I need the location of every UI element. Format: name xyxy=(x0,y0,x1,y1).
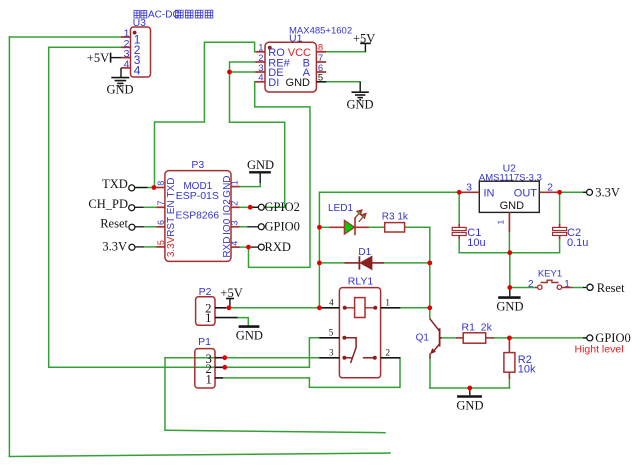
svg-text:5: 5 xyxy=(318,73,323,84)
op-amp U1 MAX485 xyxy=(255,26,352,93)
switch KEY1 xyxy=(528,268,572,289)
svg-text:LED1: LED1 xyxy=(328,203,353,214)
wire ESP Reset terminal xyxy=(143,226,157,228)
ground bar symbol at P3 pin1 xyxy=(247,158,274,183)
svg-text:GND: GND xyxy=(286,77,311,89)
wire U3 pin1 horizontal xyxy=(9,36,121,38)
svg-text:GPIO0: GPIO0 xyxy=(265,220,300,234)
wire GPIO0 node to terminal xyxy=(509,337,586,339)
junction dot RXD xyxy=(246,245,251,250)
svg-text:GND: GND xyxy=(500,200,525,212)
node GPIO0 R2 junction xyxy=(507,336,512,341)
svg-text:3: 3 xyxy=(329,348,334,358)
ground earth symbol at U3 pin4 xyxy=(107,68,134,97)
ground earth symbol at U1 pin5 xyxy=(347,82,374,112)
svg-text:TXD: TXD xyxy=(102,177,128,191)
wire R3 right corner xyxy=(405,226,430,228)
svg-text:R3 1k: R3 1k xyxy=(382,211,409,222)
U1 pin 6 A xyxy=(316,71,326,73)
svg-text:2: 2 xyxy=(528,279,534,290)
P2 pin 2 xyxy=(215,307,226,309)
U1 pin names xyxy=(268,47,311,89)
svg-text:KEY1: KEY1 xyxy=(538,268,562,279)
svg-text:+5V: +5V xyxy=(220,286,242,300)
wire ESP RXD row xyxy=(240,246,249,248)
U1 pin 8 VCC xyxy=(316,51,326,53)
svg-text:2: 2 xyxy=(547,182,553,194)
U2 pin 1 GND xyxy=(508,212,510,232)
node U2 OUT junction xyxy=(557,190,562,195)
svg-text:+5V: +5V xyxy=(353,31,375,45)
resistor R2 xyxy=(504,338,536,379)
wire bottom slanted run from U3 pin1 net xyxy=(9,453,390,457)
svg-text:5: 5 xyxy=(156,240,166,245)
connector P1 xyxy=(195,336,223,388)
connector U3 xyxy=(121,10,213,78)
wire Q1 collector stub xyxy=(429,308,431,319)
RLY1 pin 1 stub xyxy=(381,307,401,309)
U1 pin1 marker dot xyxy=(268,46,272,50)
wire D1 row right xyxy=(384,262,430,264)
svg-text:GPIO2: GPIO2 xyxy=(265,200,300,214)
svg-text:1: 1 xyxy=(205,372,211,386)
wire ESP TXD terminal xyxy=(135,187,157,189)
svg-text:IO2: IO2 xyxy=(222,199,233,216)
wire D1 R3 net vertical xyxy=(429,227,431,307)
svg-text:GND: GND xyxy=(247,158,274,172)
U3 pin 2 xyxy=(121,46,131,48)
node relay pin4 junction xyxy=(317,305,322,310)
P2 pin 1 xyxy=(215,317,238,319)
U1 pin numbers xyxy=(258,43,263,84)
svg-text:RLY1: RLY1 xyxy=(348,276,374,288)
svg-text:1: 1 xyxy=(385,298,390,308)
node LED rail top junction xyxy=(317,225,322,230)
P3 pin 5 3.3V xyxy=(157,246,165,248)
wire KEY1 left xyxy=(510,287,535,289)
wire P1 pin1 to relay pin2 xyxy=(309,358,400,388)
LED LED1 xyxy=(328,203,369,235)
svg-text:OUT: OUT xyxy=(514,188,538,200)
wire relay pin5 vertical xyxy=(309,338,319,368)
node GPIO2 terminal xyxy=(248,200,300,214)
RLY1 contact xyxy=(344,338,374,363)
wire U3 pin1 left vertical down xyxy=(8,37,10,457)
P3 rotated pin names xyxy=(166,175,233,257)
svg-text:4: 4 xyxy=(134,64,141,78)
wire U1 DE stub join xyxy=(230,71,256,73)
node P1 pin2 junction xyxy=(222,365,227,370)
P1 pin 3 xyxy=(215,357,223,359)
wire KEY1 right xyxy=(572,287,583,289)
wire Q1 emitter down xyxy=(429,358,431,388)
svg-text:3.3V: 3.3V xyxy=(102,240,127,254)
P1 pin 1 xyxy=(215,377,223,379)
wire C1 top xyxy=(458,192,460,224)
svg-text:CH_PD: CH_PD xyxy=(88,197,128,211)
wire LED row left xyxy=(319,226,329,228)
svg-text:GND: GND xyxy=(496,300,523,314)
svg-text:1: 1 xyxy=(564,279,570,290)
P3 pin 4 RXD xyxy=(231,246,240,248)
svg-text:Q1: Q1 xyxy=(416,333,430,344)
P3 pin 7 EN xyxy=(157,206,165,208)
svg-text:7: 7 xyxy=(156,200,166,205)
U1 pin 1 RO xyxy=(255,51,265,53)
ground bar symbol at P2 xyxy=(236,327,263,343)
node U1 DE junction xyxy=(227,70,232,75)
wire U1 DI to ESP RXD xyxy=(249,82,311,268)
wire gnd rail under U2 xyxy=(459,252,559,254)
U3 pin 4 xyxy=(121,67,131,69)
svg-text:3: 3 xyxy=(466,182,472,194)
node emitter gnd junction xyxy=(467,386,472,391)
wire U1 VCC to +5V xyxy=(326,51,365,53)
resistor R3 xyxy=(382,211,409,232)
wire D1 row left xyxy=(319,262,344,264)
power +5V at U3 pin3 xyxy=(87,51,121,65)
P3 pin 2 IO2 xyxy=(231,206,240,208)
wire ESP 3.3V terminal xyxy=(143,246,157,248)
svg-text:10u: 10u xyxy=(467,237,485,249)
node CH_PD terminal xyxy=(88,197,143,211)
RLY1 pin 5 stub xyxy=(319,337,339,339)
svg-text:4: 4 xyxy=(329,298,334,308)
svg-text:IO0: IO0 xyxy=(222,218,233,235)
svg-text:RXD: RXD xyxy=(222,237,233,258)
node Reset terminal xyxy=(100,217,143,231)
U1 pin 3 DE xyxy=(255,71,265,73)
wire LED to R3 xyxy=(369,226,385,228)
P3 pin 3 IO0 xyxy=(231,226,240,228)
wire C2 bottom xyxy=(559,239,561,253)
junction dot TXD xyxy=(152,185,157,190)
svg-text:Hight level: Hight level xyxy=(575,344,624,356)
svg-text:AMS1117S-3.3: AMS1117S-3.3 xyxy=(479,172,542,183)
P3 module texts xyxy=(176,181,220,222)
node Q1 collector junction xyxy=(427,305,432,310)
U1 pin 2 RE# xyxy=(255,61,265,63)
wire U3 pin2 horizontal xyxy=(49,46,121,48)
P3 pin 8 TXD xyxy=(157,187,165,189)
svg-text:P3: P3 xyxy=(191,159,204,171)
wire emitter gnd rail xyxy=(430,387,510,389)
svg-text:4: 4 xyxy=(258,73,263,84)
svg-text:GND: GND xyxy=(222,175,233,197)
node P1 pin3 junction xyxy=(222,355,227,360)
ground bar symbol at emitter rail xyxy=(456,388,483,412)
wire +5V top rail to U2 IN xyxy=(319,191,459,193)
ground bar symbol below U2 xyxy=(496,288,523,314)
wire relay pin1 to Q1 collector node xyxy=(400,307,430,309)
svg-text:GND: GND xyxy=(107,83,134,97)
wire GPIO2 under text xyxy=(250,206,285,208)
node RXD terminal xyxy=(246,240,291,254)
connector P2 xyxy=(196,286,238,325)
node KEY1 gnd junction xyxy=(507,285,512,290)
RLY1 pin 4 stub xyxy=(320,307,339,309)
capacitor C2 xyxy=(553,224,589,249)
transistor Q1 xyxy=(416,319,442,359)
wire U2 IN left xyxy=(440,191,459,193)
svg-text:U3: U3 xyxy=(133,17,147,29)
wire gnd rail down to KEY1 xyxy=(509,253,511,288)
U1 pin 5 GND stub xyxy=(316,81,326,83)
node 3.3V terminal left xyxy=(102,240,143,254)
wire ESP CH_PD terminal xyxy=(143,206,157,208)
svg-text:+5V: +5V xyxy=(87,51,109,65)
U1 pin 7 B xyxy=(316,61,326,63)
RLY1 pin 2 stub xyxy=(381,357,401,359)
U3 pin 1 xyxy=(121,36,131,38)
capacitor C1 xyxy=(452,224,485,249)
node U2 IN junction xyxy=(457,190,462,195)
U1 pin 4 DI xyxy=(255,81,265,83)
wire U2 GND down xyxy=(508,232,510,253)
svg-text:1: 1 xyxy=(205,311,211,325)
svg-text:3.3V: 3.3V xyxy=(595,186,620,200)
svg-text:U1: U1 xyxy=(289,33,303,45)
svg-text:2: 2 xyxy=(386,348,391,358)
module P3 ESP-01S xyxy=(156,159,240,261)
wire P1 pin1 row xyxy=(223,377,309,379)
node gnd rail junction xyxy=(507,250,512,255)
wire U1 RE# corner xyxy=(230,62,256,122)
power +5V at U1 VCC xyxy=(353,31,375,52)
node GPIO0 terminal right xyxy=(575,331,631,355)
P1 pin 2 xyxy=(215,366,223,368)
U2 pin 3 IN xyxy=(459,191,479,193)
svg-text:GND: GND xyxy=(456,398,483,412)
relay RLY1 xyxy=(319,276,400,378)
wire ESP GPIO2 row xyxy=(240,206,251,208)
U3 pin1 marker dot xyxy=(133,31,137,35)
svg-text:P2: P2 xyxy=(199,286,212,298)
svg-text:1: 1 xyxy=(495,220,505,225)
wire ESP GND pin1 xyxy=(240,183,261,187)
wire RE#/DE net to GPIO2 xyxy=(230,122,285,207)
RLY1 pin numbers xyxy=(329,298,390,358)
diode D1 xyxy=(345,247,384,270)
U3 pin 3 xyxy=(121,57,131,59)
svg-text:0.1u: 0.1u xyxy=(567,237,588,249)
svg-text:5: 5 xyxy=(329,328,334,338)
wire U3 pin2 vertical down xyxy=(48,47,50,367)
wire U1 GND pin xyxy=(326,81,360,83)
resistor R1 xyxy=(456,322,494,344)
svg-text:10k: 10k xyxy=(518,363,536,375)
U3 pin numbers outside xyxy=(124,28,130,71)
wire P2 pin1 to gnd xyxy=(238,318,249,326)
node D1 right junction xyxy=(427,261,432,266)
RLY1 pin 3 stub xyxy=(319,357,339,359)
node D1 left junction xyxy=(317,261,322,266)
wire U2 OUT to 3.3V xyxy=(539,191,586,193)
svg-text:IN: IN xyxy=(484,188,495,200)
wire P1 pin3 net bottom run xyxy=(165,430,385,432)
P3 rotated pin numbers left xyxy=(156,180,240,246)
svg-text:Reset: Reset xyxy=(597,281,625,295)
svg-text:R1 2k: R1 2k xyxy=(462,322,493,334)
svg-text:P1: P1 xyxy=(198,336,211,348)
svg-text:AC-DC: AC-DC xyxy=(148,10,180,21)
wire +5V vertical rail xyxy=(318,192,320,307)
svg-text:ESP8266: ESP8266 xyxy=(176,211,220,222)
node TXD terminal xyxy=(102,177,156,191)
wire U1 RO to ESP TXD xyxy=(155,42,255,187)
svg-text:GND: GND xyxy=(347,98,374,112)
node 3.3V output terminal xyxy=(583,186,620,200)
P3 pin 1 GND xyxy=(231,186,240,188)
svg-text:DI: DI xyxy=(268,77,279,89)
LED1 emission arrows xyxy=(355,210,366,222)
wire +5V row P2 to relay pin4 xyxy=(229,307,320,309)
RLY1 coil xyxy=(355,298,365,318)
U3 title Chinese 隔离AC-DC开关电源 xyxy=(134,11,147,19)
U2 pin 2 OUT xyxy=(539,191,559,193)
wire R1 to GPIO0 node xyxy=(494,337,509,339)
P3 pin 6 RST xyxy=(157,226,165,228)
wire C2 top xyxy=(559,192,561,224)
svg-text:D1: D1 xyxy=(358,247,371,258)
wire R2 bottom to rail xyxy=(508,379,510,389)
svg-text:Reset: Reset xyxy=(100,217,128,231)
U3 pin names inside xyxy=(134,33,141,78)
wire ESP GPIO0 green part xyxy=(240,226,249,228)
node Reset terminal right xyxy=(583,281,625,295)
node GPIO0 terminal at P3 xyxy=(248,220,300,234)
wire Q1 base to R1 xyxy=(442,337,457,339)
svg-text:6: 6 xyxy=(156,220,166,225)
node P2 +5V junction xyxy=(227,305,232,310)
wire P1 pin3 row to relay pin3 xyxy=(165,357,319,359)
svg-text:3.3V: 3.3V xyxy=(166,236,177,257)
svg-text:4: 4 xyxy=(124,58,130,70)
regulator U2 AMS1117S-3.3 xyxy=(459,163,559,232)
svg-text:GND: GND xyxy=(236,328,263,342)
svg-text:8: 8 xyxy=(156,181,166,186)
wire P1 pin3 net vertical down xyxy=(164,358,166,431)
wire C1 bottom xyxy=(458,239,460,253)
wire U3 pin2 net to P1 pin2 and relay xyxy=(49,366,310,368)
power +5V at P2 xyxy=(220,286,242,308)
junction dot GPIO2 xyxy=(248,205,253,210)
svg-text:RXD: RXD xyxy=(265,240,291,254)
svg-text:ESP-01S: ESP-01S xyxy=(176,190,219,202)
